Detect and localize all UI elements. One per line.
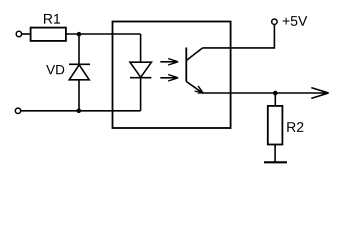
light arrow 2 (160, 75, 178, 81)
wire (78, 34, 80, 111)
LED diode (130, 62, 151, 77)
resistor R1 (31, 28, 66, 41)
ground (264, 161, 287, 163)
node junction VD/bottom (77, 109, 82, 114)
wire collector to +5V (203, 25, 275, 48)
wire (22, 33, 31, 35)
output arrow head (311, 88, 328, 99)
label VD (46, 65, 64, 74)
label R2 (287, 122, 303, 132)
terminal +5V (272, 19, 277, 24)
wire (274, 145, 276, 163)
phototransistor collector (186, 48, 202, 61)
resistor R2 (268, 106, 283, 145)
diode VD (69, 64, 90, 80)
wire (21, 110, 141, 112)
wire (66, 33, 141, 35)
wire (140, 34, 142, 111)
phototransistor Q1 base bar (185, 48, 187, 82)
terminal input bottom (15, 108, 20, 113)
node junction output/R2 (273, 91, 278, 96)
wire (274, 93, 276, 106)
light arrow 1 (160, 59, 178, 65)
phototransistor emitter with arrow (186, 82, 203, 95)
wire output (203, 92, 328, 94)
label +5V (283, 16, 308, 26)
optocoupler box U1 (113, 22, 231, 129)
terminal input top (16, 31, 21, 36)
label R1 (44, 14, 60, 24)
node junction R1/VD (77, 32, 82, 37)
